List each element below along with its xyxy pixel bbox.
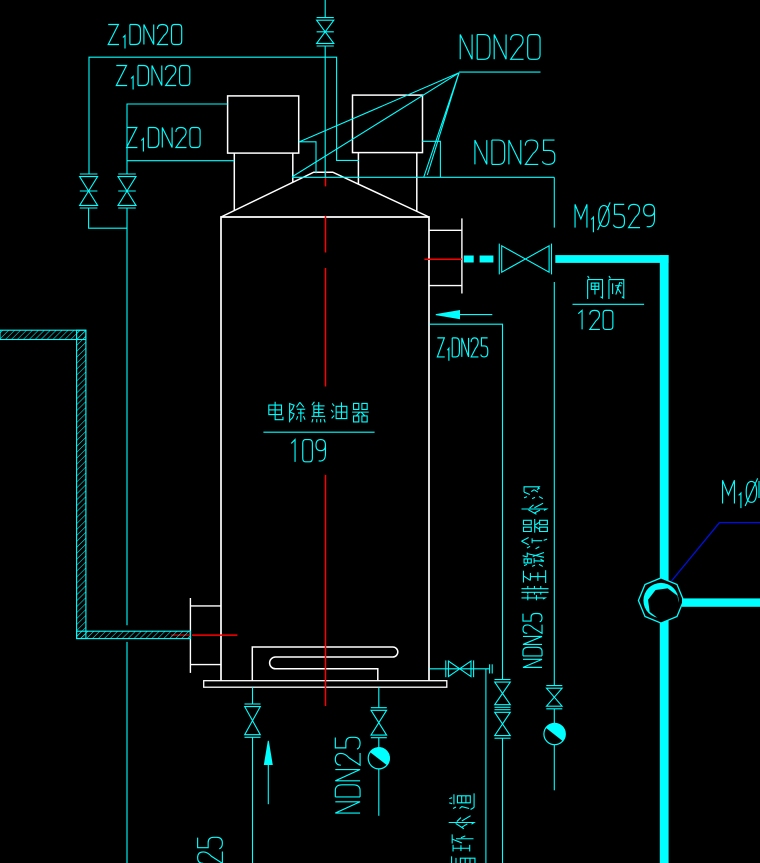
left nozzle vent connection: [299, 142, 316, 173]
mid-right nozzle with flange: [429, 229, 462, 231]
top-left nozzle N1 lower box: [233, 153, 235, 211]
insulated pipe vertical run: [77, 330, 86, 638]
vessel 电除焦油器 109 shell: [221, 217, 429, 681]
pipe fitting octagon symbol: [638, 578, 683, 623]
centerline of mid-right nozzle: [424, 258, 462, 260]
vessel conical roof: [221, 172, 429, 217]
top-left nozzle N1 upper box: [228, 96, 299, 153]
label 25 rotated: [198, 837, 223, 863]
label M1 529: [575, 202, 654, 232]
valve at vessel bottom right: [445, 660, 447, 677]
label 109 equipment number: [291, 440, 325, 462]
label NDN25 排至激冷器水沟 vertical: [523, 613, 542, 667]
valve on Z1DN20 line 2 branch: [118, 173, 136, 175]
pipe Z1DN25: [430, 324, 503, 679]
NDN20 leader lines fan: [300, 73, 460, 142]
pipe drain mid under vessel: [378, 687, 380, 707]
valve on left drain: [245, 703, 261, 705]
valve on riser: [317, 17, 334, 19]
centerline of bottom-left nozzle: [192, 634, 237, 636]
vertical centerline of vessel: [325, 173, 327, 187]
label NDN25 top right: [475, 140, 555, 164]
label Z1DN20 first: [108, 25, 181, 49]
drain funnel on mid drain: [378, 738, 380, 748]
valve on mid drain NDN25: [371, 707, 387, 709]
bottom-left nozzle with flange: [190, 605, 221, 607]
thick branch pipe to right: [682, 598, 760, 606]
pipe 循环水道 drop: [485, 669, 487, 863]
right nozzle vent connection: [422, 141, 440, 177]
internal liquid-seal coil: [252, 647, 397, 681]
underline of 闸阀 120: [573, 303, 645, 305]
valve on right drain NDN25: [546, 685, 562, 687]
insulated pipe bottom run: [77, 631, 191, 638]
drain line from valves down left side: [126, 208, 128, 625]
pipe NDN25 drop line right: [553, 177, 555, 227]
upward flow arrow: [267, 764, 269, 804]
pipe drain left under vessel: [252, 687, 254, 703]
bottom-right horizontal valve line: [430, 668, 490, 670]
label 120: [578, 310, 613, 329]
dark centerline under hatch: [171, 634, 190, 636]
label 循环水道 vertical: [449, 793, 476, 863]
pipe Z1DN20 line 1: [89, 57, 359, 173]
thick pipe stub at nozzle: [464, 256, 474, 263]
label Z1DN25: [437, 338, 487, 361]
pipe Z1DN25 stacked valves: [495, 679, 511, 681]
thick pipe M1-529 horizontal: [555, 255, 668, 263]
blind flange bars: [489, 664, 491, 673]
thick pipe stub 2: [480, 256, 494, 263]
gate valve 闸阀 120: [498, 244, 500, 275]
pipe Z1DN20 line 2: [127, 104, 228, 174]
left drain line to bottom: [252, 737, 254, 863]
thick pipe M1-529 vertical down right side: [660, 255, 669, 863]
pipe NDN25 header line: [292, 176, 554, 178]
riser pipe at vessel top: [324, 0, 326, 18]
riser pipe below valve: [324, 46, 326, 177]
top-right nozzle N2 upper box: [353, 95, 423, 153]
pipe Z1DN20 line 3: [127, 160, 234, 162]
line below stacked valves: [502, 738, 504, 863]
label M1 diameter right edge: [723, 478, 758, 508]
wire left branch to second branch: [89, 208, 127, 228]
valve on Z1DN20 line 1 left branch: [80, 173, 98, 175]
NDN20 leader underline: [459, 71, 541, 73]
vessel base plate: [204, 681, 447, 688]
underline of equipment label: [263, 431, 374, 433]
drain funnel right: [553, 709, 555, 724]
flow arrow into vessel: [459, 314, 492, 316]
leader line to M1 label: [720, 522, 760, 524]
label NDN20: [460, 35, 540, 60]
top-right nozzle N2 lower box: [357, 153, 359, 185]
label Z1DN20 third: [127, 128, 201, 152]
label Z1DN20 second: [116, 66, 189, 90]
label NDN25 vertical mid drain: [335, 737, 360, 813]
label 电除焦油器: [269, 402, 369, 423]
insulated pipe top run: [0, 330, 86, 339]
label 闸阀 gate valve: [588, 276, 624, 299]
